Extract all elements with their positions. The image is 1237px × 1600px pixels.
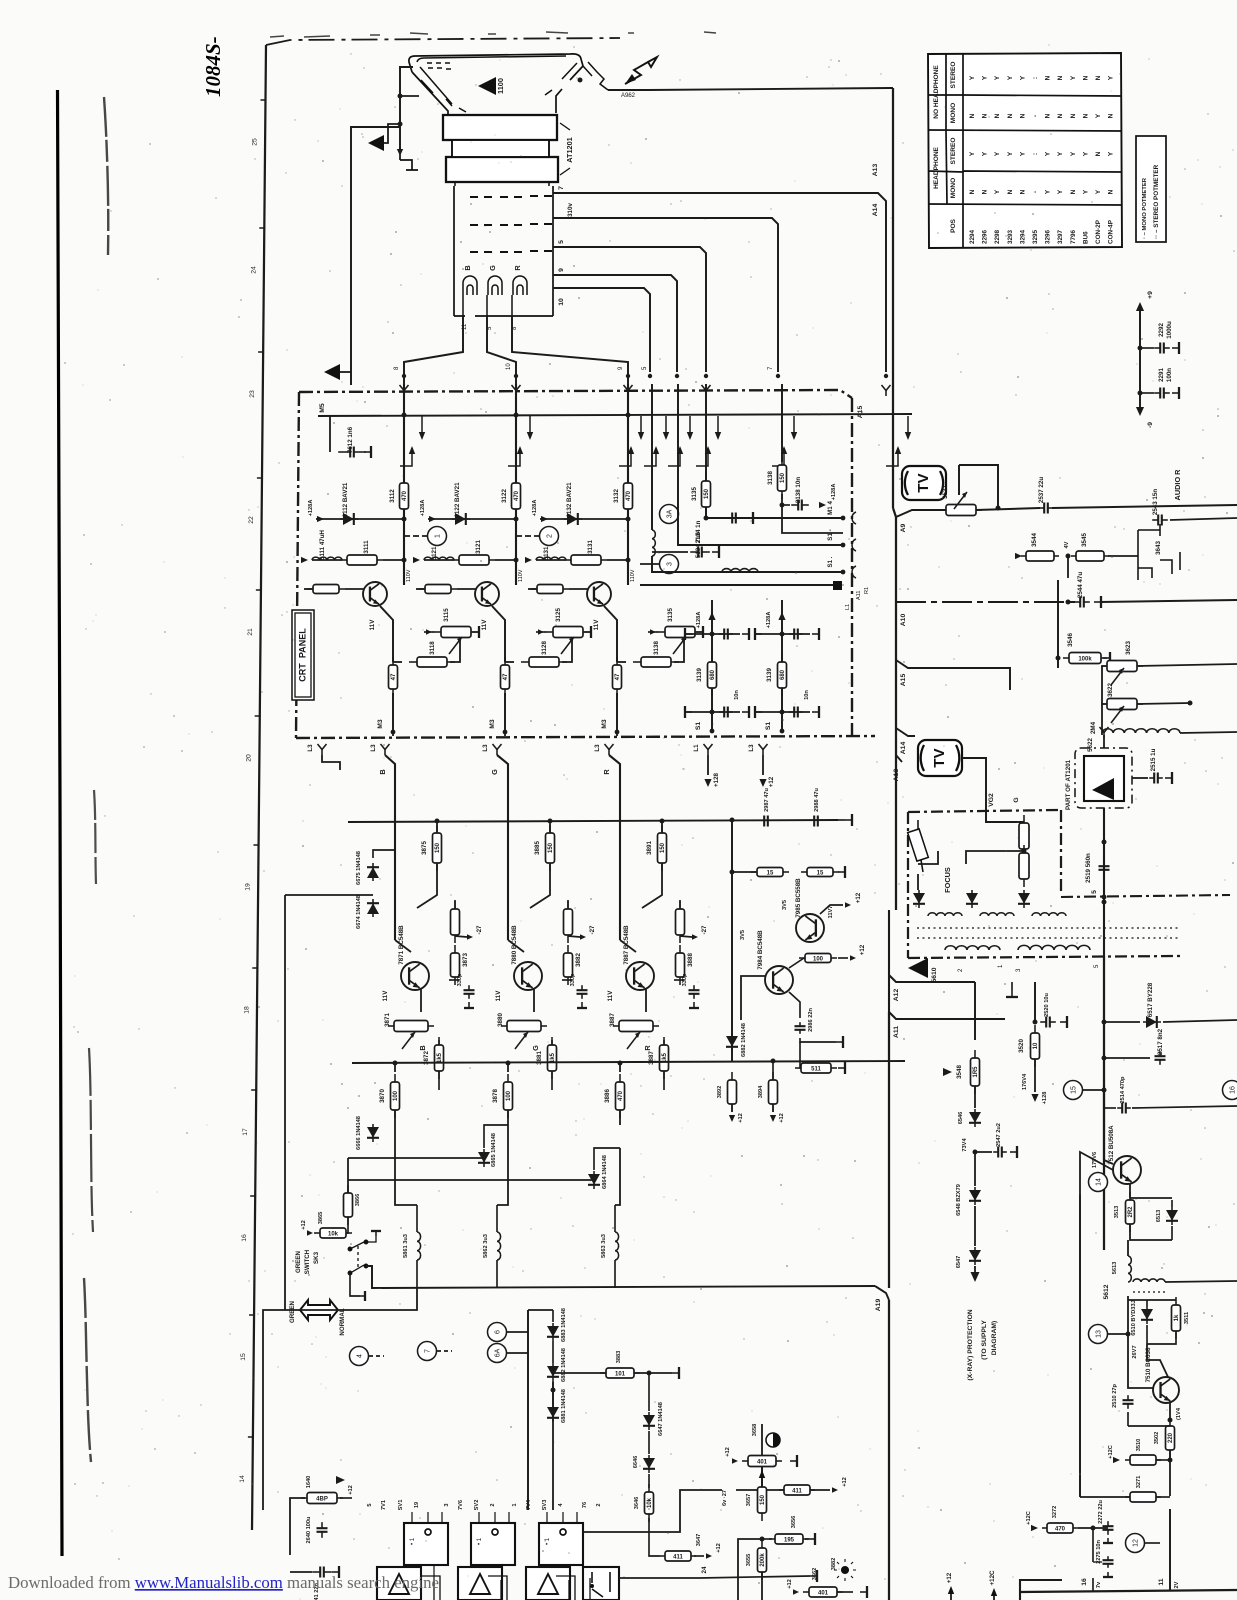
cathode wire R drop: [512, 316, 628, 384]
triangle box B: [377, 1567, 421, 1600]
svg-text:330p: 330p: [457, 973, 463, 986]
lower resistor 100 B: [394, 1063, 396, 1072]
resistor 3118: [409, 657, 455, 667]
A10 contrast dash line: [896, 601, 1075, 603]
svg-text:7985 BC558B: 7985 BC558B: [795, 878, 802, 918]
svg-text:L1: L1: [845, 604, 851, 610]
svg-text:100n: 100n: [1166, 368, 1173, 382]
svg-text:N: N: [1057, 113, 1064, 118]
test node 1 stub: [404, 535, 427, 537]
pot feed arrow ch2: [538, 629, 544, 634]
trimmer arrow ch2: [561, 637, 574, 654]
cap 2986 22n: [789, 992, 800, 1018]
resistor 3511 1k: [1172, 1297, 1181, 1339]
+12 arrow 3647: [706, 1553, 712, 1558]
svg-text:+128A: +128A: [831, 484, 837, 501]
g-col wire 782: [781, 600, 783, 730]
resistor 3894: [769, 1072, 778, 1112]
svg-text:100: 100: [393, 1090, 399, 1101]
sk3 lower pole wire: [350, 1273, 360, 1296]
pin connector dot x404: [402, 374, 406, 378]
node 4V: [1066, 554, 1071, 559]
feedback up wire ch3: [674, 640, 684, 662]
svg-text:Y: Y: [1019, 75, 1026, 80]
off-page up arrow x908: [897, 448, 899, 462]
resistor base 3114: [307, 585, 345, 594]
transistor 7121: [475, 582, 499, 606]
BAV21 clamp line ch2: [428, 518, 516, 520]
svg-text:6666 1N4148: 6666 1N4148: [356, 1116, 362, 1150]
svg-text:3655: 3655: [746, 1554, 752, 1567]
wire from frame to clamp: [284, 895, 286, 1310]
off-page up arrow x641: [630, 448, 632, 462]
svg-text:G: G: [531, 1045, 540, 1051]
svg-text:2520 10u: 2520 10u: [1044, 993, 1050, 1017]
cap 330p R: [674, 979, 684, 981]
panel top bus line: [318, 414, 912, 416]
svg-text:SV3: SV3: [542, 1500, 548, 1511]
wire 1640 down: [290, 1498, 305, 1555]
ground 24: [810, 1570, 817, 1582]
svg-text:4V: 4V: [1064, 541, 1070, 548]
ground 2272: [1103, 1538, 1113, 1543]
svg-text:HEADPHONE: HEADPHONE: [933, 146, 940, 188]
svg-text:A12: A12: [893, 989, 900, 1002]
svg-text:6675 1N4148: 6675 1N4148: [356, 851, 362, 885]
+128A feed arrow2 ch1: [301, 557, 308, 563]
frame tick 17: [251, 1089, 257, 1091]
svg-text::: :: [1032, 153, 1039, 155]
svg-text:Y: Y: [1045, 151, 1052, 156]
svg-text:BU6: BU6: [1082, 231, 1089, 244]
svg-text:3545: 3545: [1081, 533, 1088, 547]
svg-text:MONO: MONO: [950, 103, 957, 123]
off-page down arrow x794: [793, 416, 795, 438]
switch box contents: [592, 1572, 610, 1597]
capacitor 2275 10n: [1103, 1556, 1114, 1568]
frame tick 22: [257, 477, 263, 479]
coil 5134 7u6: [722, 569, 758, 572]
svg-text:N: N: [982, 189, 989, 194]
+12 arrow b0: [729, 1115, 735, 1122]
CRT grid dashes column 1: [470, 197, 492, 252]
svg-text:L3: L3: [307, 744, 314, 752]
svg-text:L3: L3: [748, 744, 755, 752]
test node 3A: [660, 505, 679, 524]
svg-text:6: 6: [494, 1330, 501, 1334]
svg-text:3548: 3548: [956, 1065, 963, 1079]
bottom rail node G: [506, 1061, 511, 1066]
capacitor 2517 8n2: [1155, 1051, 1166, 1065]
trimmer 3125: [545, 627, 591, 638]
winding2 seg1: [945, 946, 1000, 950]
svg-text:176V4: 176V4: [1022, 1073, 1028, 1090]
svg-text:3293: 3293: [1007, 229, 1014, 244]
trimmer 387x R: [613, 1021, 659, 1032]
coil node ch2: [514, 558, 519, 563]
bottom rail node B: [393, 1061, 398, 1066]
svg-text:200k: 200k: [760, 1553, 766, 1567]
fork stub left 322: [322, 755, 340, 770]
resistor 100 G: [504, 1074, 513, 1118]
main left line to bottom edge: [888, 1300, 890, 1600]
svg-text:L3: L3: [594, 744, 601, 752]
capacitor 2641 22n: [312, 1567, 332, 1578]
6v127 wire: [583, 1544, 590, 1546]
transistor 7111: [363, 582, 387, 606]
svg-text:TV: TV: [931, 748, 948, 767]
scan streak smudge 2: [94, 790, 96, 884]
+12 arrow 3658: [732, 1458, 738, 1463]
ground 2641: [332, 1566, 339, 1578]
diode 6132 BAV21: [564, 513, 582, 525]
svg-text:Y: Y: [982, 151, 989, 156]
svg-text:Y: Y: [1095, 113, 1102, 118]
svg-text:3883: 3883: [616, 1351, 622, 1364]
svg-text:2544 47u: 2544 47u: [1077, 572, 1084, 598]
svg-text:R: R: [602, 769, 611, 775]
trimmer arrow B: [402, 1032, 415, 1049]
off-page up arrow x690: [679, 448, 681, 462]
video top rail +12: [348, 820, 838, 822]
box G dot: [492, 1529, 498, 1535]
g-col node1 712: [710, 632, 715, 637]
svg-text:6865 1N4148: 6865 1N4148: [491, 1133, 497, 1167]
svg-text:Y: Y: [1070, 75, 1077, 80]
node (1V4: [1168, 1418, 1173, 1423]
coil 5862: [497, 1232, 501, 1260]
svg-text:R: R: [643, 1045, 652, 1051]
svg-text:+128: +128: [713, 772, 720, 787]
grid column 678 wire: [678, 384, 843, 545]
svg-text:Downloaded from www.Manualslib: Downloaded from www.Manualslib.com manua…: [8, 1573, 439, 1592]
svg-text:23: 23: [249, 390, 256, 398]
svg-text:2510 27p: 2510 27p: [1112, 1384, 1118, 1408]
CRT panel dash-dot border top: [299, 390, 852, 398]
svg-text:L3: L3: [370, 744, 377, 752]
coil row link ch1: [383, 559, 404, 561]
node 3894: [771, 1059, 776, 1064]
pot ground ch2: [584, 626, 591, 638]
trimmer arrow ch1: [449, 637, 462, 654]
off-page down arrow x718: [717, 416, 719, 438]
x-ray column down to 3271 row: [1079, 1195, 1081, 1497]
TV brightness pot symbol: [902, 466, 946, 500]
CRT panel dash-dot border right: [851, 398, 853, 736]
bus node 2: [514, 413, 519, 418]
bottom pin dot ch3: [615, 730, 620, 735]
peaking coil line ch1: [312, 559, 342, 561]
resistor mid R: [676, 945, 685, 985]
connector fork L3 x763: [759, 744, 768, 755]
transistor 7131: [587, 582, 611, 606]
ground 330p R: [689, 1002, 699, 1008]
svg-text:6v ·27: 6v ·27: [722, 1490, 728, 1506]
heater return wire: [351, 127, 400, 385]
resistor 3896 100: [799, 954, 837, 963]
resistor 3647 411: [660, 1551, 696, 1561]
7512 collector wire: [1103, 1090, 1105, 1160]
ladder vertical link: [552, 1341, 554, 1363]
svg-text:3544: 3544: [1031, 533, 1038, 547]
triangle G: [470, 1574, 490, 1594]
svg-text:M5: M5: [319, 403, 326, 413]
resistor 3662 401: [803, 1587, 843, 1597]
svg-text:3623: 3623: [1125, 641, 1132, 655]
svg-text:3502: 3502: [1154, 1432, 1160, 1445]
focus bleeder resistor diagonal: [908, 820, 929, 872]
contrast line to edge: [1100, 600, 1237, 602]
L1 line inside box: [640, 584, 836, 586]
capacitor 2272 22u: [1103, 1521, 1114, 1535]
svg-text:+12: +12: [859, 944, 866, 955]
grid pin wire 5: [553, 247, 706, 372]
diode 6666 1N4148: [367, 1124, 379, 1142]
svg-text:3657: 3657: [746, 1494, 752, 1507]
pot ground ch3: [696, 626, 703, 638]
diode flyback 919: [913, 890, 925, 908]
pin connector dot x516: [514, 374, 518, 378]
svg-text:16: 16: [241, 1234, 248, 1242]
test point 15: [1064, 1081, 1083, 1100]
test node 3 stub: [640, 563, 659, 565]
3510 branch: [1128, 1425, 1170, 1427]
resistor 3111+1: [453, 555, 495, 565]
resistor 3647b 411: [779, 1485, 815, 1495]
+12 arrow 3896: [850, 955, 856, 960]
cap 330p G: [562, 979, 572, 981]
svg-text:220: 220: [1168, 1432, 1174, 1443]
svg-text:Y: Y: [1095, 189, 1102, 194]
test point 6: [488, 1323, 507, 1342]
ht node b: [1102, 900, 1107, 905]
winding seg1: [928, 913, 962, 916]
pot top loop wire: [959, 465, 998, 507]
capacitor 2515 1u: [1149, 773, 1163, 784]
flyback secondary dash-dot line: [1061, 895, 1230, 897]
ground 2275: [1103, 1572, 1113, 1577]
coil row link ch3: [607, 559, 628, 561]
svg-text:3520: 3520: [1018, 1039, 1025, 1053]
transistor 7880 BC548B: [514, 962, 542, 990]
svg-text:10k: 10k: [328, 1231, 339, 1237]
g-col top arrow 782: [778, 612, 785, 620]
resistor fb R: [676, 901, 685, 943]
svg-text:8: 8: [394, 366, 400, 370]
+128A feed arrow ch3: [541, 516, 548, 522]
svg-text:GREEN: GREEN: [295, 1250, 302, 1273]
svg-text:NORMAL: NORMAL: [339, 1308, 346, 1335]
CRT panel dash-dot border bottom: [296, 736, 875, 738]
ground 2547: [1010, 1146, 1017, 1158]
CRT panel dash-dot border left: [296, 392, 299, 738]
cap 2292 branch: [1140, 347, 1154, 349]
capacitor 2986 22n: [795, 1022, 806, 1034]
-27 arrow B: [467, 934, 473, 939]
G cathode long drop: [497, 755, 508, 940]
diode 6881 1N4148: [547, 1404, 559, 1422]
svg-text:A9: A9: [900, 523, 907, 532]
svg-text:150: 150: [780, 472, 786, 483]
resistor fb G: [564, 901, 573, 943]
diode flyback 1024: [1018, 890, 1030, 908]
svg-text:DIAGRAM): DIAGRAM): [991, 1321, 998, 1356]
resistor 3548 1R5: [971, 1050, 980, 1094]
ground 782 b: [755, 628, 762, 640]
svg-text:7: 7: [768, 366, 774, 370]
resistor 3520 10: [1031, 1025, 1040, 1067]
svg-text:A13: A13: [872, 164, 879, 177]
svg-text:+12: +12: [738, 1113, 744, 1123]
svg-text:470: 470: [626, 490, 632, 501]
capacitor 2547 2u2: [993, 1147, 1007, 1158]
+128A feed arrow2 ch2: [413, 557, 420, 563]
diode 6882 1N4148 b: [547, 1363, 559, 1381]
resistor 3128: [521, 657, 567, 667]
pin connector dot x628: [626, 374, 630, 378]
CRT faceplate inner contour: [417, 56, 577, 104]
ground 3546: [1103, 652, 1110, 664]
EHT flashover spark gap symbol: [583, 62, 608, 90]
svg-text:6882 1N4148: 6882 1N4148: [561, 1348, 567, 1382]
svg-text:411: 411: [673, 1554, 683, 1560]
svg-text:5613: 5613: [1112, 1262, 1118, 1275]
svg-text:6513: 6513: [1156, 1210, 1162, 1223]
svg-text:10: 10: [558, 298, 565, 306]
svg-text:10k: 10k: [647, 1497, 653, 1508]
TV vg2 pot symbol: [918, 740, 962, 776]
ground 782 a: [812, 628, 819, 640]
diode flyback 972: [966, 890, 978, 908]
svg-text:CON-4P: CON-4P: [1108, 220, 1115, 244]
trimmer 3115: [433, 627, 479, 638]
resistor 3898 511: [795, 1063, 837, 1073]
svg-text:10: 10: [506, 363, 512, 370]
EHT anode wire to right bus: [608, 88, 893, 90]
connector fork L3 x385: [381, 744, 390, 755]
ground 782 c: [812, 706, 819, 718]
base link ch2: [457, 588, 476, 590]
+9 rail arrow up: [1136, 302, 1144, 311]
svg-text:Y: Y: [1057, 189, 1064, 194]
capacitor 2612 1n6: [338, 447, 366, 458]
svg-text:5861 3u3: 5861 3u3: [403, 1234, 409, 1258]
switch box 4th: [583, 1567, 619, 1600]
grid pin wire 10: [553, 288, 650, 372]
svg-text:401: 401: [757, 1459, 768, 1465]
svg-text:3656: 3656: [791, 1516, 797, 1529]
svg-text:11V: 11V: [593, 619, 600, 631]
node 732a: [730, 818, 735, 823]
pin numbers above panel: [394, 363, 774, 370]
svg-text:-: -: [1032, 191, 1039, 193]
diode 6865 1N4148: [478, 1149, 490, 1167]
svg-text:2547 2u2: 2547 2u2: [996, 1123, 1002, 1147]
frame tick 15: [249, 1314, 255, 1316]
svg-text:STEREO: STEREO: [950, 62, 957, 89]
cap 2515 1u: [1132, 777, 1148, 779]
svg-text:3647: 3647: [696, 1534, 702, 1547]
svg-text:6547: 6547: [956, 1256, 962, 1269]
svg-text:2134 1n: 2134 1n: [695, 520, 702, 543]
right edge small labels: [845, 587, 870, 610]
heater coil R: [513, 276, 527, 295]
peaking coil line ch2: [424, 559, 454, 561]
ground 712 c: [742, 706, 749, 718]
B drive drop wire: [395, 1125, 417, 1205]
svg-text:15: 15: [767, 870, 774, 876]
svg-text:470: 470: [618, 1090, 624, 1101]
triangle box R: [526, 1567, 570, 1600]
svg-text:680: 680: [710, 669, 716, 680]
right ladder column: [648, 1373, 650, 1411]
g-col cap row2 782: [754, 711, 810, 713]
ht line below focus: [1103, 956, 1105, 1250]
pin connector dot x778: [776, 374, 780, 378]
coil row link ch2: [495, 559, 516, 561]
transistor 7984 BC548B: [765, 966, 793, 994]
capacitor 2138 10n b: [719, 707, 733, 718]
coil 5863: [615, 1232, 619, 1260]
svg-text:Y: Y: [994, 75, 1001, 80]
test point 7: [418, 1342, 437, 1361]
svg-text:N: N: [1082, 75, 1089, 80]
scan streak smudge 4: [84, 1278, 91, 1462]
svg-text:22: 22: [248, 516, 255, 524]
svg-text:(TO SUPPLY: (TO SUPPLY: [981, 1320, 988, 1360]
svg-text:A10: A10: [900, 614, 907, 627]
svg-text:10: 10: [1033, 1042, 1039, 1049]
resistor 3138: [633, 657, 679, 667]
resistor 3646 101: [645, 1484, 654, 1522]
svg-text:5: 5: [1091, 890, 1098, 894]
svg-text:+12: +12: [348, 1485, 354, 1495]
box R pins: [547, 1512, 577, 1580]
zener 6547 column tail: [974, 1206, 976, 1246]
svg-text:1k5: 1k5: [437, 1052, 443, 1063]
resistor 3138 150k: [778, 457, 787, 499]
potentiometer 3537: [940, 505, 982, 516]
svg-text:25: 25: [251, 138, 258, 146]
svg-text:3880: 3880: [497, 1013, 504, 1027]
diode 6864 1N4148: [588, 1171, 600, 1189]
x-ray protection arrow: [971, 1272, 980, 1282]
capacitor 2291 100n: [1154, 388, 1170, 399]
diode 6513 BY(133): [1166, 1207, 1178, 1225]
svg-text:15: 15: [1070, 1086, 1077, 1094]
svg-text:15: 15: [240, 1353, 247, 1361]
bus node 1: [402, 413, 407, 418]
svg-text:Y: Y: [1045, 189, 1052, 194]
bottom rail corner step: [1020, 1580, 1062, 1600]
brightness line y507: [896, 510, 948, 517]
transistor 7887 BC548B: [626, 962, 654, 990]
resistor 3885 150: [546, 825, 555, 871]
capacitor 2139 a: [789, 629, 803, 640]
frame tick 23: [258, 351, 264, 353]
svg-text:11V: 11V: [481, 619, 488, 631]
diode 6883 1N4148: [547, 1323, 559, 1341]
cathode pin leads: [463, 295, 512, 316]
svg-text:47: 47: [391, 673, 397, 680]
off-page up arrow x530: [519, 448, 521, 462]
svg-text:680: 680: [780, 669, 786, 680]
svg-text:330p: 330p: [682, 973, 688, 986]
svg-text:2: 2: [596, 1503, 602, 1506]
resistor 3886 15: [751, 868, 789, 877]
svg-text:5: 5: [367, 1503, 373, 1506]
wire right from boxes: [583, 1490, 722, 1532]
